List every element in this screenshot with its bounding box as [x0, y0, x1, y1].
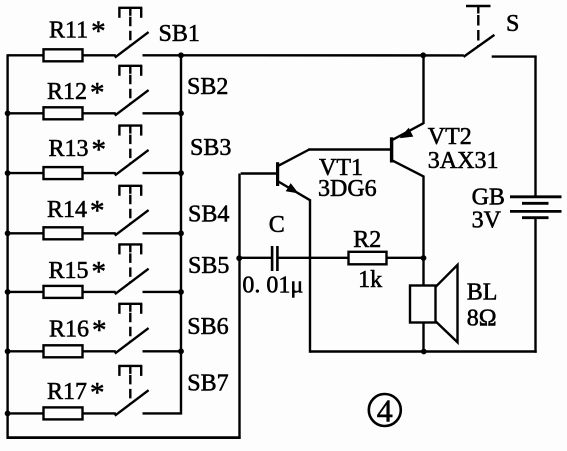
node: left bus junction row 2: [5, 110, 11, 116]
resistor R15: [44, 256, 107, 298]
wire: row 6 resistor to switch: [83, 350, 116, 352]
resistor R14: [44, 195, 105, 239]
switch SB7 (push-button, with label): [115, 366, 229, 416]
switch S (with label): [464, 6, 520, 57]
node: switch bus junction row 1: [178, 52, 184, 58]
node: VT2 emitter tap on top wire: [420, 52, 426, 58]
switch SB5 (push-button, with label): [115, 244, 230, 294]
node: switch bus junction row 6: [178, 348, 184, 354]
svg-text:SB6: SB6: [187, 314, 228, 340]
resistor R17: [44, 377, 105, 419]
speaker BL 8ohm: [410, 265, 497, 342]
node: speaker bottom junction: [421, 349, 427, 355]
wire: row 3 left lead: [8, 172, 45, 174]
wire: row 2 resistor to switch: [83, 112, 116, 114]
wire: row 6 left lead: [8, 350, 45, 352]
wire: row 4 resistor to switch: [83, 232, 116, 234]
switch SB2 (push-button, with label): [115, 66, 229, 116]
switch SB6 (push-button, with label): [115, 304, 229, 354]
wire: row 7 resistor to switch: [83, 412, 116, 414]
svg-text:SB3: SB3: [190, 135, 231, 161]
svg-text:0. 01μ: 0. 01μ: [242, 273, 303, 299]
node: left bus junction row 4: [5, 230, 11, 236]
wire: row 4 left lead: [8, 232, 45, 234]
svg-text:SB5: SB5: [188, 253, 229, 279]
node: switch bus junction row 3: [178, 170, 184, 176]
resistor R11: [44, 16, 106, 62]
wire: row 5 switch to bus: [143, 291, 183, 293]
node: left bus junction row 5: [5, 289, 11, 295]
wire: VT2 emitter up-leg: [422, 54, 424, 124]
node: C left junction: [236, 255, 242, 261]
svg-text:GB: GB: [472, 184, 505, 210]
wire: R2 to VT2 collector leg: [387, 257, 425, 259]
wire: top row to switch S: [181, 54, 464, 57]
svg-text:R14*: R14*: [47, 195, 105, 227]
wire: row 6 switch to bus: [143, 350, 183, 352]
resistor R16: [44, 315, 107, 358]
node: left bus junction row 7: [5, 411, 11, 417]
svg-text:BL: BL: [467, 279, 498, 305]
svg-text:SB4: SB4: [188, 202, 229, 228]
svg-text:3AX31: 3AX31: [428, 148, 499, 174]
wire: row 7 switch to bus: [143, 412, 183, 414]
svg-text:R17*: R17*: [47, 377, 105, 409]
svg-text:R11*: R11*: [49, 16, 106, 48]
switch SB1 (push-button, with label): [115, 8, 200, 58]
wire: VT1 emitter down-leg (x=310): [309, 199, 311, 353]
figure number 4 (circled): [369, 392, 401, 428]
wire: VT1 base down-leg (x=240): [238, 174, 240, 439]
wire: bottom rail: [310, 350, 537, 352]
svg-text:4: 4: [377, 392, 393, 428]
wire: VT2 collector down-leg to speaker: [422, 176, 424, 287]
node: left bus junction row 3: [5, 170, 11, 176]
wire: row 7 left lead: [8, 412, 45, 414]
wire: row 2 switch to bus: [143, 112, 183, 114]
wire: row 2 left lead: [8, 112, 45, 114]
transistor VT1 3DG6 (NPN): [241, 150, 377, 203]
wire: bottom-left horizontal: [7, 436, 241, 439]
svg-text:R2: R2: [353, 227, 381, 253]
svg-text:3V: 3V: [472, 208, 502, 234]
wire: speaker to bottom rail: [422, 323, 424, 353]
svg-text:R16*: R16*: [49, 315, 107, 347]
wire: switch output bus (x=181): [180, 54, 182, 414]
resistor R13: [44, 134, 107, 179]
svg-text:R12*: R12*: [47, 77, 105, 109]
wire: VT1 collector to VT2 base: [308, 148, 390, 150]
svg-text:3DG6: 3DG6: [318, 176, 377, 202]
svg-text:S: S: [506, 11, 519, 37]
svg-text:R15*: R15*: [49, 256, 107, 288]
svg-text:1k: 1k: [358, 267, 382, 293]
resistor R2 1k: [349, 227, 387, 293]
svg-text:C: C: [269, 212, 285, 238]
switch SB4 (push-button, with label): [115, 186, 230, 236]
node: switch bus junction row 4: [178, 230, 184, 236]
svg-text:SB1: SB1: [159, 21, 200, 47]
svg-text:8Ω: 8Ω: [467, 305, 497, 331]
svg-text:VT2: VT2: [428, 124, 472, 150]
capacitor C 0.01u: [242, 212, 303, 298]
wire: row 5 resistor to switch: [83, 291, 116, 293]
wire: switch S to right bus corner: [492, 57, 537, 196]
wire: row 3 resistor to switch: [83, 172, 116, 174]
svg-text:R13*: R13*: [49, 134, 107, 166]
wire: battery negative to bottom rail: [534, 219, 536, 353]
node: R2 / collector junction: [421, 255, 427, 261]
wire: C left lead: [240, 257, 272, 259]
node: switch bus junction row 5: [178, 289, 184, 295]
node: left bus junction row 6: [5, 348, 11, 354]
wire: row 1 switch to bus: [143, 54, 183, 56]
svg-text:SB2: SB2: [187, 74, 228, 100]
wire: C to R2: [279, 257, 350, 259]
wire: row 4 switch to bus: [143, 232, 183, 234]
battery GB 3V: [472, 184, 562, 233]
transistor VT2 3AX31 (PNP): [392, 123, 499, 176]
wire: row 1 resistor to switch: [83, 54, 116, 56]
wire: left vertical bus: [6, 54, 8, 439]
wire: row 5 left lead: [8, 291, 45, 293]
wire: row 3 switch to bus: [143, 172, 183, 174]
wire: row 1 left lead: [8, 54, 45, 56]
switch SB3 (push-button, with label): [115, 126, 232, 176]
node: switch bus junction row 2: [178, 110, 184, 116]
resistor R12: [44, 77, 105, 120]
svg-text:SB7: SB7: [187, 371, 228, 397]
